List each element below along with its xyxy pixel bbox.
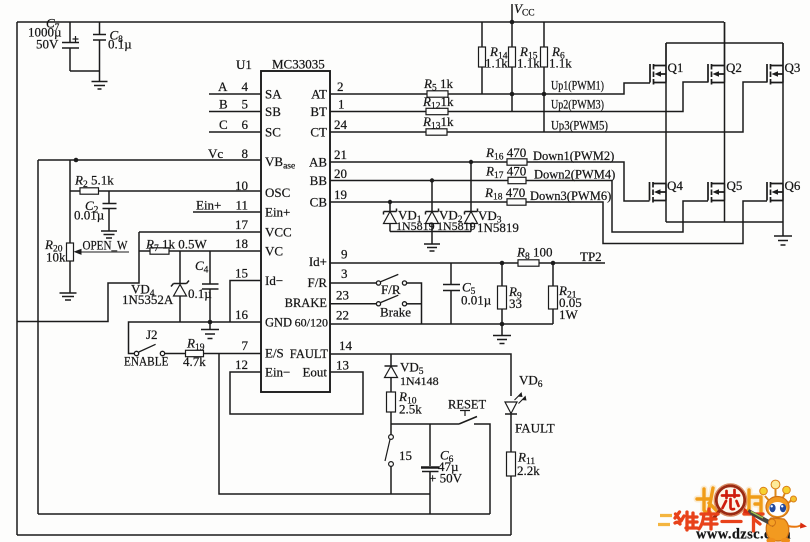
svg-text:1W: 1W	[559, 307, 579, 322]
svg-text:14: 14	[339, 338, 353, 353]
diode VD1	[384, 202, 397, 232]
svg-text:F/R: F/R	[381, 282, 401, 297]
svg-text:SC: SC	[265, 125, 281, 140]
svg-text:Q6: Q6	[785, 178, 801, 193]
wire source bus to ground	[666, 201, 783, 237]
svg-text:AB: AB	[309, 155, 327, 170]
switch J2	[134, 351, 138, 355]
node Vc junction dot	[74, 158, 79, 163]
wire BT pin1 line	[330, 82, 708, 112]
node dots pin9 line	[500, 261, 505, 266]
svg-text:0.01µ: 0.01µ	[74, 208, 105, 223]
resistor R18	[507, 199, 526, 205]
transistor Q3	[767, 43, 783, 85]
watermark dzsc logo	[658, 480, 807, 542]
svg-text:RESET: RESET	[448, 398, 487, 412]
svg-text:R8 100: R8 100	[516, 245, 552, 263]
wire R20 branch vertical	[69, 160, 71, 243]
svg-text:Ein+: Ein+	[265, 205, 290, 220]
switch F/R pin3	[330, 282, 376, 284]
svg-text:15: 15	[235, 266, 248, 281]
node VCC junction	[510, 20, 515, 25]
svg-text:C4: C4	[195, 258, 209, 276]
svg-text:BT: BT	[310, 104, 327, 119]
svg-text:AT: AT	[311, 87, 327, 102]
wire input A stub	[209, 93, 261, 95]
resistor R15	[511, 22, 513, 112]
svg-text:FAULT: FAULT	[290, 347, 329, 361]
svg-text:B: B	[219, 97, 228, 112]
svg-text:Q4: Q4	[667, 178, 683, 193]
wire phase A Q1-Q4	[665, 83, 667, 184]
svg-text:R5 1k: R5 1k	[423, 76, 453, 94]
svg-text:ENABLE: ENABLE	[124, 355, 169, 369]
svg-text:VD6: VD6	[519, 373, 543, 391]
svg-text:Q2: Q2	[726, 60, 742, 75]
node taps for VD1-VD3	[388, 200, 392, 204]
svg-text:2.2k: 2.2k	[517, 463, 540, 478]
svg-text:16: 16	[235, 307, 249, 322]
wire phase B Q2-Q5	[724, 83, 726, 184]
switch 15	[390, 424, 392, 435]
svg-text:Up2(PWM3): Up2(PWM3)	[551, 98, 604, 112]
svg-text:Down1(PWM2): Down1(PWM2)	[533, 149, 614, 163]
svg-text:5: 5	[242, 97, 249, 112]
wire VCC upper line Q1-Q3	[666, 42, 783, 44]
ground below VD2	[424, 232, 440, 252]
svg-text:VC: VC	[265, 244, 283, 259]
wire bottom return	[17, 534, 511, 536]
transistor Q1	[650, 43, 666, 85]
wire CT pin24 line	[330, 82, 767, 132]
node dots on Up1	[510, 92, 515, 97]
resistor R8	[518, 260, 539, 266]
svg-text:12: 12	[235, 357, 248, 372]
svg-text:Ein+: Ein+	[196, 198, 221, 213]
svg-text:OSC: OSC	[265, 185, 290, 200]
resistor R11	[507, 452, 516, 476]
wire Vc net vertical	[38, 160, 261, 514]
svg-text:1.1k: 1.1k	[549, 56, 572, 71]
wire pin22 rail	[330, 323, 553, 325]
svg-text:1N5352A: 1N5352A	[122, 292, 174, 307]
svg-text:60/120: 60/120	[295, 316, 328, 330]
transistor Q2	[708, 22, 725, 85]
svg-text:J2: J2	[146, 327, 158, 342]
wire AT pin2 line	[330, 83, 650, 94]
resistor R9	[501, 263, 503, 324]
resistor R19	[165, 353, 261, 355]
svg-text:1: 1	[338, 97, 345, 112]
ground at pin16 rail	[201, 322, 219, 339]
svg-text:C: C	[219, 117, 228, 132]
svg-text:R2 5.1k: R2 5.1k	[74, 173, 114, 191]
capacitor C7	[62, 22, 100, 71]
wire VCC top rail	[17, 21, 724, 23]
svg-text:Q3: Q3	[785, 60, 801, 75]
svg-text:3: 3	[341, 266, 348, 281]
svg-text:Q1: Q1	[668, 60, 684, 75]
svg-text:CB: CB	[310, 195, 328, 210]
wire bottom mid return	[38, 513, 490, 515]
svg-text:R7 1k 0.5W: R7 1k 0.5W	[145, 237, 207, 255]
switch RESET	[391, 417, 490, 515]
svg-text:Q5: Q5	[727, 178, 743, 193]
svg-text:U1: U1	[236, 57, 252, 72]
wire E/S timing vertical	[219, 353, 430, 494]
ground below Q6	[774, 236, 792, 245]
svg-text:0.01µ: 0.01µ	[461, 293, 492, 308]
svg-text:BB: BB	[310, 173, 328, 188]
capacitor C2	[103, 191, 117, 231]
svg-text:23: 23	[336, 288, 349, 303]
svg-text:1N5819: 1N5819	[477, 220, 519, 235]
resistor R16	[507, 159, 527, 165]
ground below R20	[60, 293, 77, 300]
capacitor C8	[93, 22, 106, 82]
resistor R17	[508, 177, 526, 183]
svg-text:50V: 50V	[36, 37, 59, 52]
potentiometer R20	[67, 243, 74, 261]
wire BB pin20 line	[330, 181, 708, 233]
svg-text:9: 9	[341, 247, 348, 262]
node dot R9 bottom	[500, 322, 505, 327]
svg-text:0.1µ: 0.1µ	[188, 286, 212, 301]
svg-text:Vc: Vc	[208, 146, 223, 161]
transistor Q5	[708, 182, 725, 203]
wiper arrow OPEN_W	[80, 251, 129, 253]
resistor R10	[387, 392, 396, 412]
svg-text:+ 50V: + 50V	[429, 471, 463, 486]
resistor R5	[427, 91, 448, 97]
diode VD5	[385, 354, 398, 392]
svg-text:R18 470: R18 470	[484, 185, 525, 203]
svg-text:Down3(PWM6): Down3(PWM6)	[530, 189, 611, 203]
svg-text:10k: 10k	[46, 250, 66, 265]
svg-text:Brake: Brake	[380, 305, 411, 320]
svg-text:TP2: TP2	[580, 249, 602, 264]
svg-text:GND: GND	[265, 316, 292, 330]
resistor R2	[70, 190, 261, 192]
wire FAULT pin14 line	[330, 354, 511, 396]
svg-text:Up3(PWM5): Up3(PWM5)	[551, 119, 608, 133]
resistor R13	[426, 129, 447, 135]
svg-text:VCC: VCC	[514, 1, 535, 19]
svg-text:1.1k: 1.1k	[517, 56, 540, 71]
svg-text:4: 4	[242, 79, 249, 94]
resistor R21	[552, 263, 554, 324]
switch Brake pin23	[330, 303, 376, 305]
svg-text:0.1µ: 0.1µ	[108, 37, 132, 52]
svg-text:Id−: Id−	[265, 273, 283, 288]
wire CB pin19 line	[330, 201, 767, 244]
svg-text:SA: SA	[265, 87, 282, 102]
diode VD2	[426, 181, 439, 232]
wire phase C Q3-Q6	[782, 83, 784, 184]
transistor Q6	[767, 182, 783, 203]
svg-text:VCC: VCC	[265, 225, 292, 240]
capacitor C4	[202, 251, 219, 322]
resistor R7	[139, 250, 261, 252]
ground below C8	[92, 82, 108, 90]
svg-text:R19: R19	[186, 336, 205, 354]
resistor R6	[543, 22, 545, 132]
power VCC stub	[511, 4, 513, 22]
svg-text:1N4148: 1N4148	[400, 374, 439, 388]
svg-text:33: 33	[509, 296, 522, 311]
zener VD4	[171, 251, 189, 322]
wire input C stub	[209, 131, 261, 133]
svg-text:18: 18	[235, 236, 248, 251]
svg-text:SB: SB	[265, 104, 281, 119]
node GND junction	[208, 320, 213, 325]
svg-text:21: 21	[334, 147, 347, 162]
svg-text:1N5819: 1N5819	[437, 219, 476, 233]
svg-text:OPEN_W: OPEN_W	[83, 239, 128, 253]
svg-text:17: 17	[235, 217, 249, 232]
transistor Q4	[650, 182, 667, 203]
ground below R9	[493, 324, 511, 344]
svg-text:24: 24	[334, 117, 348, 132]
svg-text:11: 11	[235, 198, 248, 213]
svg-text:1N5819: 1N5819	[396, 219, 435, 233]
svg-text:A: A	[218, 79, 228, 94]
svg-text:BRAKE: BRAKE	[285, 296, 328, 310]
svg-text:8: 8	[242, 146, 249, 161]
svg-text:15: 15	[399, 448, 412, 463]
svg-text:Id+: Id+	[309, 254, 327, 269]
wire Ein- Eout feedback loop	[230, 372, 363, 414]
svg-text:Down2(PWM4): Down2(PWM4)	[534, 168, 615, 182]
wire diode anode bus	[390, 231, 471, 233]
wire VCC pin17 branch	[17, 232, 261, 322]
svg-text:2.5k: 2.5k	[399, 402, 422, 417]
svg-text:4.7k: 4.7k	[183, 354, 206, 369]
svg-text:Up1(PWM1): Up1(PWM1)	[551, 79, 604, 93]
svg-text:FAULT: FAULT	[515, 421, 555, 436]
svg-text:R16 470: R16 470	[485, 145, 526, 163]
wire Ein+ stub	[193, 211, 261, 213]
svg-text:19: 19	[334, 187, 347, 202]
op-amp U1 MC33035 box	[261, 71, 330, 392]
wire left border (VCC loop)	[16, 22, 18, 535]
capacitor C5	[443, 263, 460, 324]
svg-text:F/R: F/R	[307, 275, 327, 290]
svg-text:E/S: E/S	[265, 346, 284, 361]
svg-text:Ein−: Ein−	[265, 365, 290, 380]
ground below C2	[101, 231, 117, 238]
svg-text:2: 2	[337, 79, 344, 94]
svg-text:R131k: R131k	[422, 114, 454, 132]
svg-text:10: 10	[235, 178, 248, 193]
svg-text:7: 7	[242, 338, 249, 353]
svg-text:1.1k: 1.1k	[485, 56, 508, 71]
svg-text:R17 470: R17 470	[485, 164, 526, 182]
wire input B stub	[209, 111, 261, 113]
wire pin16 GND rail	[129, 322, 262, 354]
led VD6	[505, 402, 517, 414]
diode VD3	[465, 162, 478, 232]
svg-text:MC33035: MC33035	[272, 57, 325, 72]
svg-text:Eout: Eout	[302, 365, 327, 380]
svg-text:22: 22	[336, 308, 349, 323]
wire pin15 branch	[230, 281, 261, 323]
resistor R12	[426, 108, 448, 114]
wire Id+ pin9 line to TP2	[330, 262, 605, 264]
capacitor C6	[429, 424, 431, 466]
svg-text:CT: CT	[310, 125, 327, 140]
svg-text:6: 6	[242, 117, 249, 132]
resistor R14	[481, 22, 483, 94]
svg-text:20: 20	[334, 166, 347, 181]
svg-text:13: 13	[336, 358, 349, 373]
wire AB pin21 line	[330, 162, 650, 201]
